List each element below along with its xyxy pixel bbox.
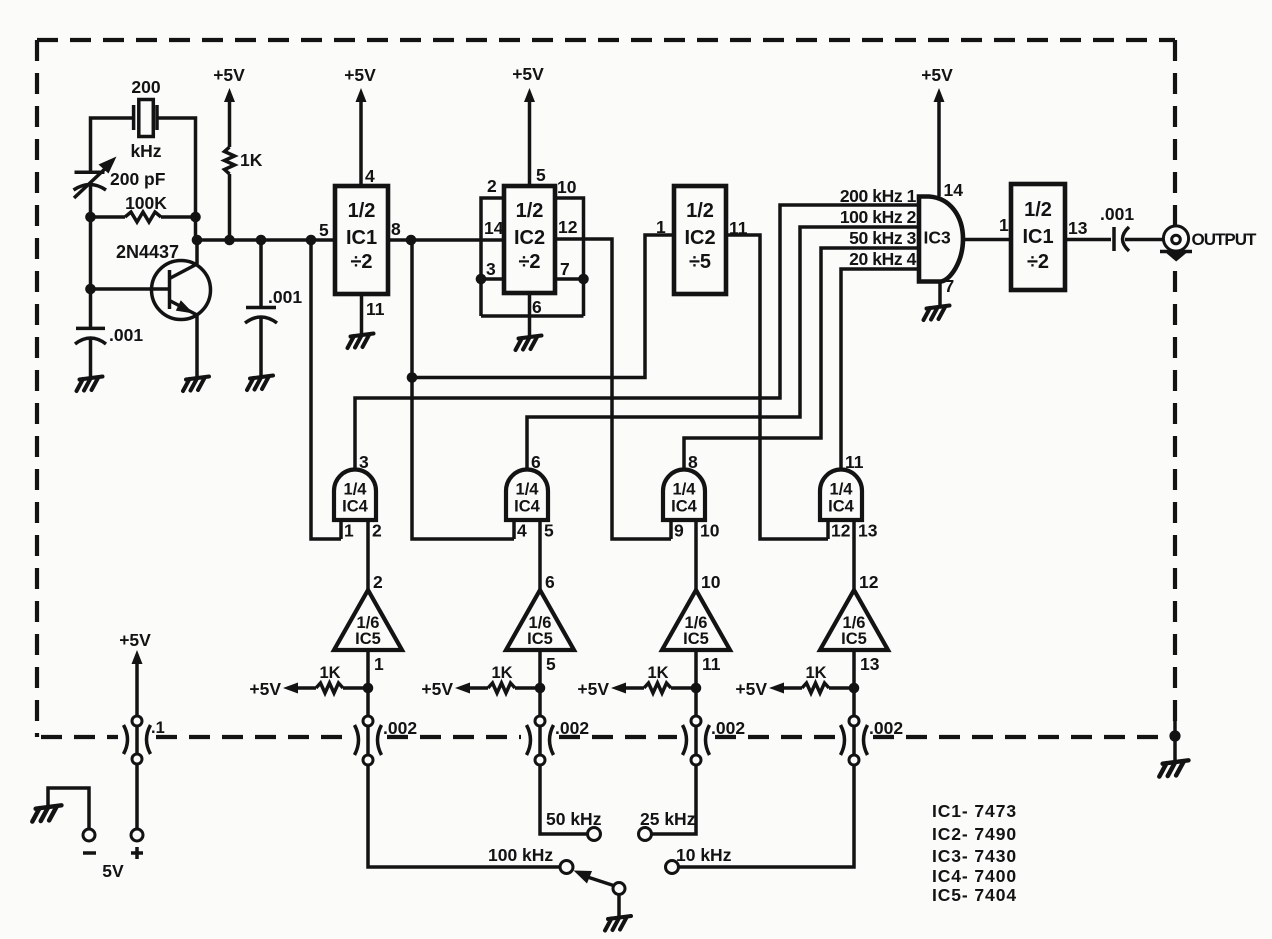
resistor 1K pull-up 3	[671, 686, 696, 690]
gate2 input pin 5 wire to inverter	[538, 520, 542, 590]
svg-text:10: 10	[701, 572, 721, 592]
svg-text:200 pF: 200 pF	[110, 169, 166, 189]
ground (bus bypass cap)	[247, 376, 273, 391]
svg-text:IC3: IC3	[924, 228, 952, 248]
svg-text:9: 9	[674, 521, 684, 541]
svg-text:6: 6	[531, 452, 541, 472]
svg-text:÷2: ÷2	[1027, 251, 1049, 273]
svg-text:.001: .001	[109, 325, 143, 345]
svg-text:2: 2	[372, 521, 382, 541]
svg-text:OUTPUT: OUTPUT	[1192, 230, 1258, 249]
svg-text:12: 12	[831, 521, 851, 541]
svg-text:4: 4	[517, 521, 527, 541]
svg-text:7: 7	[560, 259, 570, 279]
resistor R1 100K	[91, 215, 126, 219]
svg-text:50 kHz 3: 50 kHz 3	[849, 228, 917, 248]
svg-text:200 kHz 1: 200 kHz 1	[840, 186, 917, 206]
svg-text:10: 10	[557, 177, 577, 197]
svg-text:14: 14	[484, 218, 504, 238]
gate1 input pin 1 stub	[339, 520, 343, 539]
ground (left .001)	[77, 377, 103, 392]
gate4 input pin 12 stub	[826, 520, 830, 539]
svg-text:100K: 100K	[125, 193, 167, 213]
wire gate2/IC2b feed vertical	[412, 240, 514, 539]
node junction base	[85, 284, 96, 295]
wire IC2b pin11 output to gate4 input	[726, 235, 828, 539]
node junction crystal-right	[190, 212, 201, 223]
svg-text:4: 4	[365, 166, 375, 186]
inverter U-IC5b 1/6 IC5	[506, 590, 574, 650]
wire IC1b pin13 to C4	[1065, 238, 1111, 242]
svg-text:50 kHz: 50 kHz	[546, 809, 602, 829]
pin 6 stub to ground	[528, 293, 532, 337]
svg-text:IC2: IC2	[684, 227, 715, 249]
NAND gate U-IC4a 1/4 IC4	[334, 470, 376, 521]
wire inverter3 to 25 kHz contact	[652, 765, 697, 834]
feedthrough capacitor C5 .1	[132, 716, 142, 726]
wire IC2b pin1 input from IC1 pin8	[412, 235, 674, 378]
wire inverter1 to 100 kHz contact	[368, 765, 560, 867]
node junction collector/bus	[192, 235, 203, 246]
svg-text:÷2: ÷2	[350, 251, 372, 273]
svg-text:.002: .002	[711, 718, 745, 738]
switch contact 50 kHz	[588, 828, 601, 841]
svg-text:+5V: +5V	[735, 679, 767, 699]
IC block U-IC2b 1/2 IC2 divide-by-5	[674, 186, 726, 294]
capacitor C2 .001 (base bypass)	[76, 327, 105, 331]
svg-text:20 kHz 4: 20 kHz 4	[849, 249, 917, 269]
svg-text:2N4437: 2N4437	[116, 242, 179, 262]
node junction output/pull-up	[363, 683, 374, 694]
svg-text:11: 11	[845, 452, 864, 472]
wire shield ground stub	[1173, 700, 1177, 761]
resistor 1K pull-up 2	[515, 686, 540, 690]
inverter1 output wire	[366, 650, 370, 716]
svg-text:13: 13	[860, 654, 880, 674]
wire bus to gate1 input (200 kHz)	[311, 240, 341, 539]
svg-text:.001: .001	[1100, 204, 1134, 224]
svg-text:1K: 1K	[319, 664, 340, 682]
svg-text:IC5: IC5	[527, 630, 553, 648]
svg-text:IC5: IC5	[841, 630, 867, 648]
wire IC2 pin12 output (50 kHz) to gate3 input	[555, 239, 671, 539]
svg-text:IC4: IC4	[342, 498, 369, 516]
svg-text:1K: 1K	[491, 664, 512, 682]
switch contact 10 kHz	[666, 861, 679, 874]
IC block U-IC2a 1/2 IC2 divide-by-2	[504, 186, 555, 293]
svg-text:IC5- 7404: IC5- 7404	[932, 885, 1017, 905]
svg-text:1K: 1K	[240, 150, 263, 170]
svg-text:2: 2	[373, 572, 383, 592]
svg-text:6: 6	[545, 572, 555, 592]
svg-text:10: 10	[700, 521, 720, 541]
svg-text:1/2: 1/2	[1024, 199, 1052, 221]
svg-text:8: 8	[688, 452, 698, 472]
svg-text:IC5: IC5	[683, 630, 709, 648]
svg-text:IC1- 7473: IC1- 7473	[932, 801, 1017, 821]
ground (battery -)	[32, 805, 61, 821]
svg-text:12: 12	[859, 572, 879, 592]
svg-text:.1: .1	[151, 719, 165, 737]
svg-text:.002: .002	[383, 718, 417, 738]
NAND gate U-IC4c 1/4 IC4	[663, 470, 705, 521]
svg-text:IC5: IC5	[355, 630, 381, 648]
svg-text:12: 12	[558, 217, 578, 237]
shield enclosure dashed border right	[1173, 40, 1177, 736]
capacitor C4 .001 (output coupling)	[1112, 227, 1116, 251]
svg-text:IC2: IC2	[514, 227, 545, 249]
crystal Y1 200 kHz	[132, 105, 136, 130]
svg-text:÷5: ÷5	[689, 251, 711, 273]
svg-text:+5V: +5V	[344, 65, 376, 85]
wire - terminal to ground	[48, 788, 89, 829]
svg-text:3: 3	[359, 452, 369, 472]
node junction at gate2 feed	[407, 372, 418, 383]
pin 2 bracket wire	[481, 198, 504, 316]
svg-text:1/4: 1/4	[830, 481, 854, 499]
pin 7 stub	[555, 277, 584, 281]
NAND gate U-IC3 7430	[919, 197, 963, 282]
gate4 output pin 11 wire to IC3	[841, 269, 919, 470]
wire IC1 pin8 to IC2 pin14	[388, 238, 504, 242]
svg-text:IC2- 7490: IC2- 7490	[932, 824, 1017, 844]
svg-text:6: 6	[532, 297, 542, 317]
wire crystal loop top	[91, 118, 196, 217]
svg-text:+5V: +5V	[213, 65, 245, 85]
svg-text:11: 11	[702, 654, 721, 674]
shield enclosure dashed border left	[35, 40, 39, 737]
svg-text:5V: 5V	[102, 861, 124, 881]
svg-text:.001: .001	[268, 287, 302, 307]
svg-text:+5V: +5V	[421, 679, 453, 699]
svg-text:1K: 1K	[647, 664, 668, 682]
svg-text:IC4: IC4	[514, 498, 541, 516]
variable capacitor C1 200 pF	[75, 170, 105, 174]
gate2 output pin 6 wire to IC3	[527, 227, 919, 470]
svg-text:+5V: +5V	[249, 679, 281, 699]
ground (switch common)	[605, 916, 631, 931]
svg-text:3: 3	[486, 259, 496, 279]
svg-text:5: 5	[546, 654, 556, 674]
wire switch common to ground	[617, 895, 621, 918]
svg-text:2: 2	[487, 176, 497, 196]
wire collector riser	[194, 217, 198, 240]
NAND gate U-IC4b 1/4 IC4	[506, 470, 548, 521]
node junction pin8	[406, 235, 417, 246]
gate3 output pin 8 wire to IC3	[684, 248, 919, 470]
switch contact 100 kHz	[560, 861, 573, 874]
gate1 input pin 2 wire to inverter	[366, 520, 370, 590]
pin 10 bracket wire	[555, 198, 584, 316]
svg-text:+5V: +5V	[119, 630, 151, 650]
pin 3 stub	[481, 277, 504, 281]
svg-text:1/4: 1/4	[673, 481, 697, 499]
wire inverter4 to 10 kHz contact	[679, 765, 855, 867]
wire collector to bus	[195, 240, 199, 264]
node junction shield to ground	[1169, 730, 1180, 741]
gate1 output pin 3 wire to IC3	[355, 205, 919, 470]
battery - terminal	[83, 829, 95, 841]
svg-text:100 kHz 2: 100 kHz 2	[840, 207, 917, 227]
shield enclosure dashed border top	[37, 38, 1175, 42]
inverter4 output wire	[852, 650, 856, 716]
wire main bus node A	[197, 238, 335, 242]
svg-text:kHz: kHz	[130, 141, 161, 161]
node junction crystal-left / 100K	[85, 212, 96, 223]
NAND gate U-IC4d 1/4 IC4	[820, 470, 862, 521]
svg-text:+5V: +5V	[921, 65, 953, 85]
svg-text:14: 14	[944, 180, 964, 200]
gate2 input pin 4 stub	[512, 520, 516, 539]
inverter2 output wire	[538, 650, 542, 716]
svg-text:200: 200	[131, 77, 160, 97]
gate3 input pin 9 stub	[669, 520, 673, 539]
svg-text:5: 5	[536, 165, 546, 185]
svg-text:1K: 1K	[805, 664, 826, 682]
svg-text:7: 7	[945, 276, 955, 296]
feedthrough capacitor .002 (4)	[849, 716, 859, 726]
pin 11 stub and label	[360, 294, 364, 335]
inverter U-IC5a 1/6 IC5	[334, 590, 402, 650]
svg-text:IC1: IC1	[1022, 226, 1053, 248]
feedthrough capacitor .002 (1)	[363, 716, 373, 726]
transistor Q1 2N4437	[152, 261, 211, 320]
ground (IC2 pin 6)	[516, 336, 542, 351]
node junction 1K/bus	[224, 235, 235, 246]
rotary switch S1 arm	[589, 878, 614, 886]
svg-text:IC3- 7430: IC3- 7430	[932, 846, 1017, 866]
svg-text:1: 1	[374, 654, 384, 674]
IC block U-IC1a 1/2 IC1 divide-by-2	[335, 186, 388, 294]
ground (emitter)	[183, 377, 209, 392]
gate3 input pin 10 wire to inverter	[694, 520, 698, 590]
wire inverter2 to 50 kHz contact	[540, 765, 588, 834]
battery + terminal	[131, 829, 143, 841]
ground (IC1 pin 11)	[348, 334, 374, 349]
shield enclosure dashed border bottom	[41, 735, 118, 739]
svg-text:25 kHz: 25 kHz	[640, 809, 696, 829]
svg-text:1/2: 1/2	[348, 200, 376, 222]
svg-text:10 kHz: 10 kHz	[676, 845, 732, 865]
svg-text:+5V: +5V	[577, 679, 609, 699]
pin 7 stub	[938, 282, 942, 307]
inverter3 output wire	[694, 650, 698, 716]
node junction output/pull-up	[691, 683, 702, 694]
node junction gate1-feed/bus	[306, 235, 317, 246]
svg-text:IC1: IC1	[346, 227, 377, 249]
svg-text:1/2: 1/2	[516, 200, 544, 222]
svg-text:IC4: IC4	[671, 498, 698, 516]
wire IC3 output to IC1b	[963, 238, 1011, 242]
svg-text:5: 5	[544, 521, 554, 541]
IC block U-IC1b 1/2 IC1 divide-by-2	[1011, 184, 1065, 290]
svg-text:1/4: 1/4	[344, 481, 368, 499]
output jack J1	[1163, 226, 1188, 251]
svg-text:13: 13	[858, 521, 878, 541]
node junction output/pull-up	[849, 683, 860, 694]
svg-text:1: 1	[999, 215, 1009, 235]
svg-text:.002: .002	[869, 718, 903, 738]
wire +5V riser	[135, 660, 139, 716]
bracket bottom rail	[481, 314, 584, 318]
svg-text:11: 11	[366, 299, 385, 319]
svg-text:13: 13	[1068, 218, 1088, 238]
svg-text:100 kHz: 100 kHz	[488, 845, 553, 865]
resistor 1K pull-up 1	[343, 686, 368, 690]
ground (shield)	[1159, 760, 1188, 776]
inverter U-IC5d 1/6 IC5	[820, 590, 888, 650]
capacitor C3 .001 (bus bypass)	[259, 240, 263, 308]
svg-text:1/2: 1/2	[686, 200, 714, 222]
svg-text:IC4- 7400: IC4- 7400	[932, 866, 1017, 886]
svg-text:÷2: ÷2	[518, 251, 540, 273]
wire to battery + terminal	[135, 764, 139, 829]
feedthrough capacitor .002 (3)	[691, 716, 701, 726]
ground (IC3 pin 7)	[924, 306, 950, 321]
wire emitter to ground	[195, 315, 199, 378]
svg-text:IC4: IC4	[828, 498, 855, 516]
wire left branch	[89, 186, 93, 328]
node junction C3/bus	[256, 235, 267, 246]
feedthrough capacitor .002 (2)	[535, 716, 545, 726]
resistor 1K pull-up 4	[829, 686, 854, 690]
gate4 input pin 13 wire to inverter	[852, 520, 856, 590]
svg-text:1: 1	[344, 521, 354, 541]
svg-text:.002: .002	[555, 718, 589, 738]
wire C4 to output jack	[1125, 238, 1163, 242]
svg-text:1/4: 1/4	[516, 481, 540, 499]
svg-text:5: 5	[319, 220, 329, 240]
inverter U-IC5c 1/6 IC5	[662, 590, 730, 650]
switch contact 25 kHz	[639, 828, 652, 841]
svg-text:8: 8	[391, 219, 401, 239]
svg-text:+5V: +5V	[512, 64, 544, 84]
node junction output/pull-up	[535, 683, 546, 694]
